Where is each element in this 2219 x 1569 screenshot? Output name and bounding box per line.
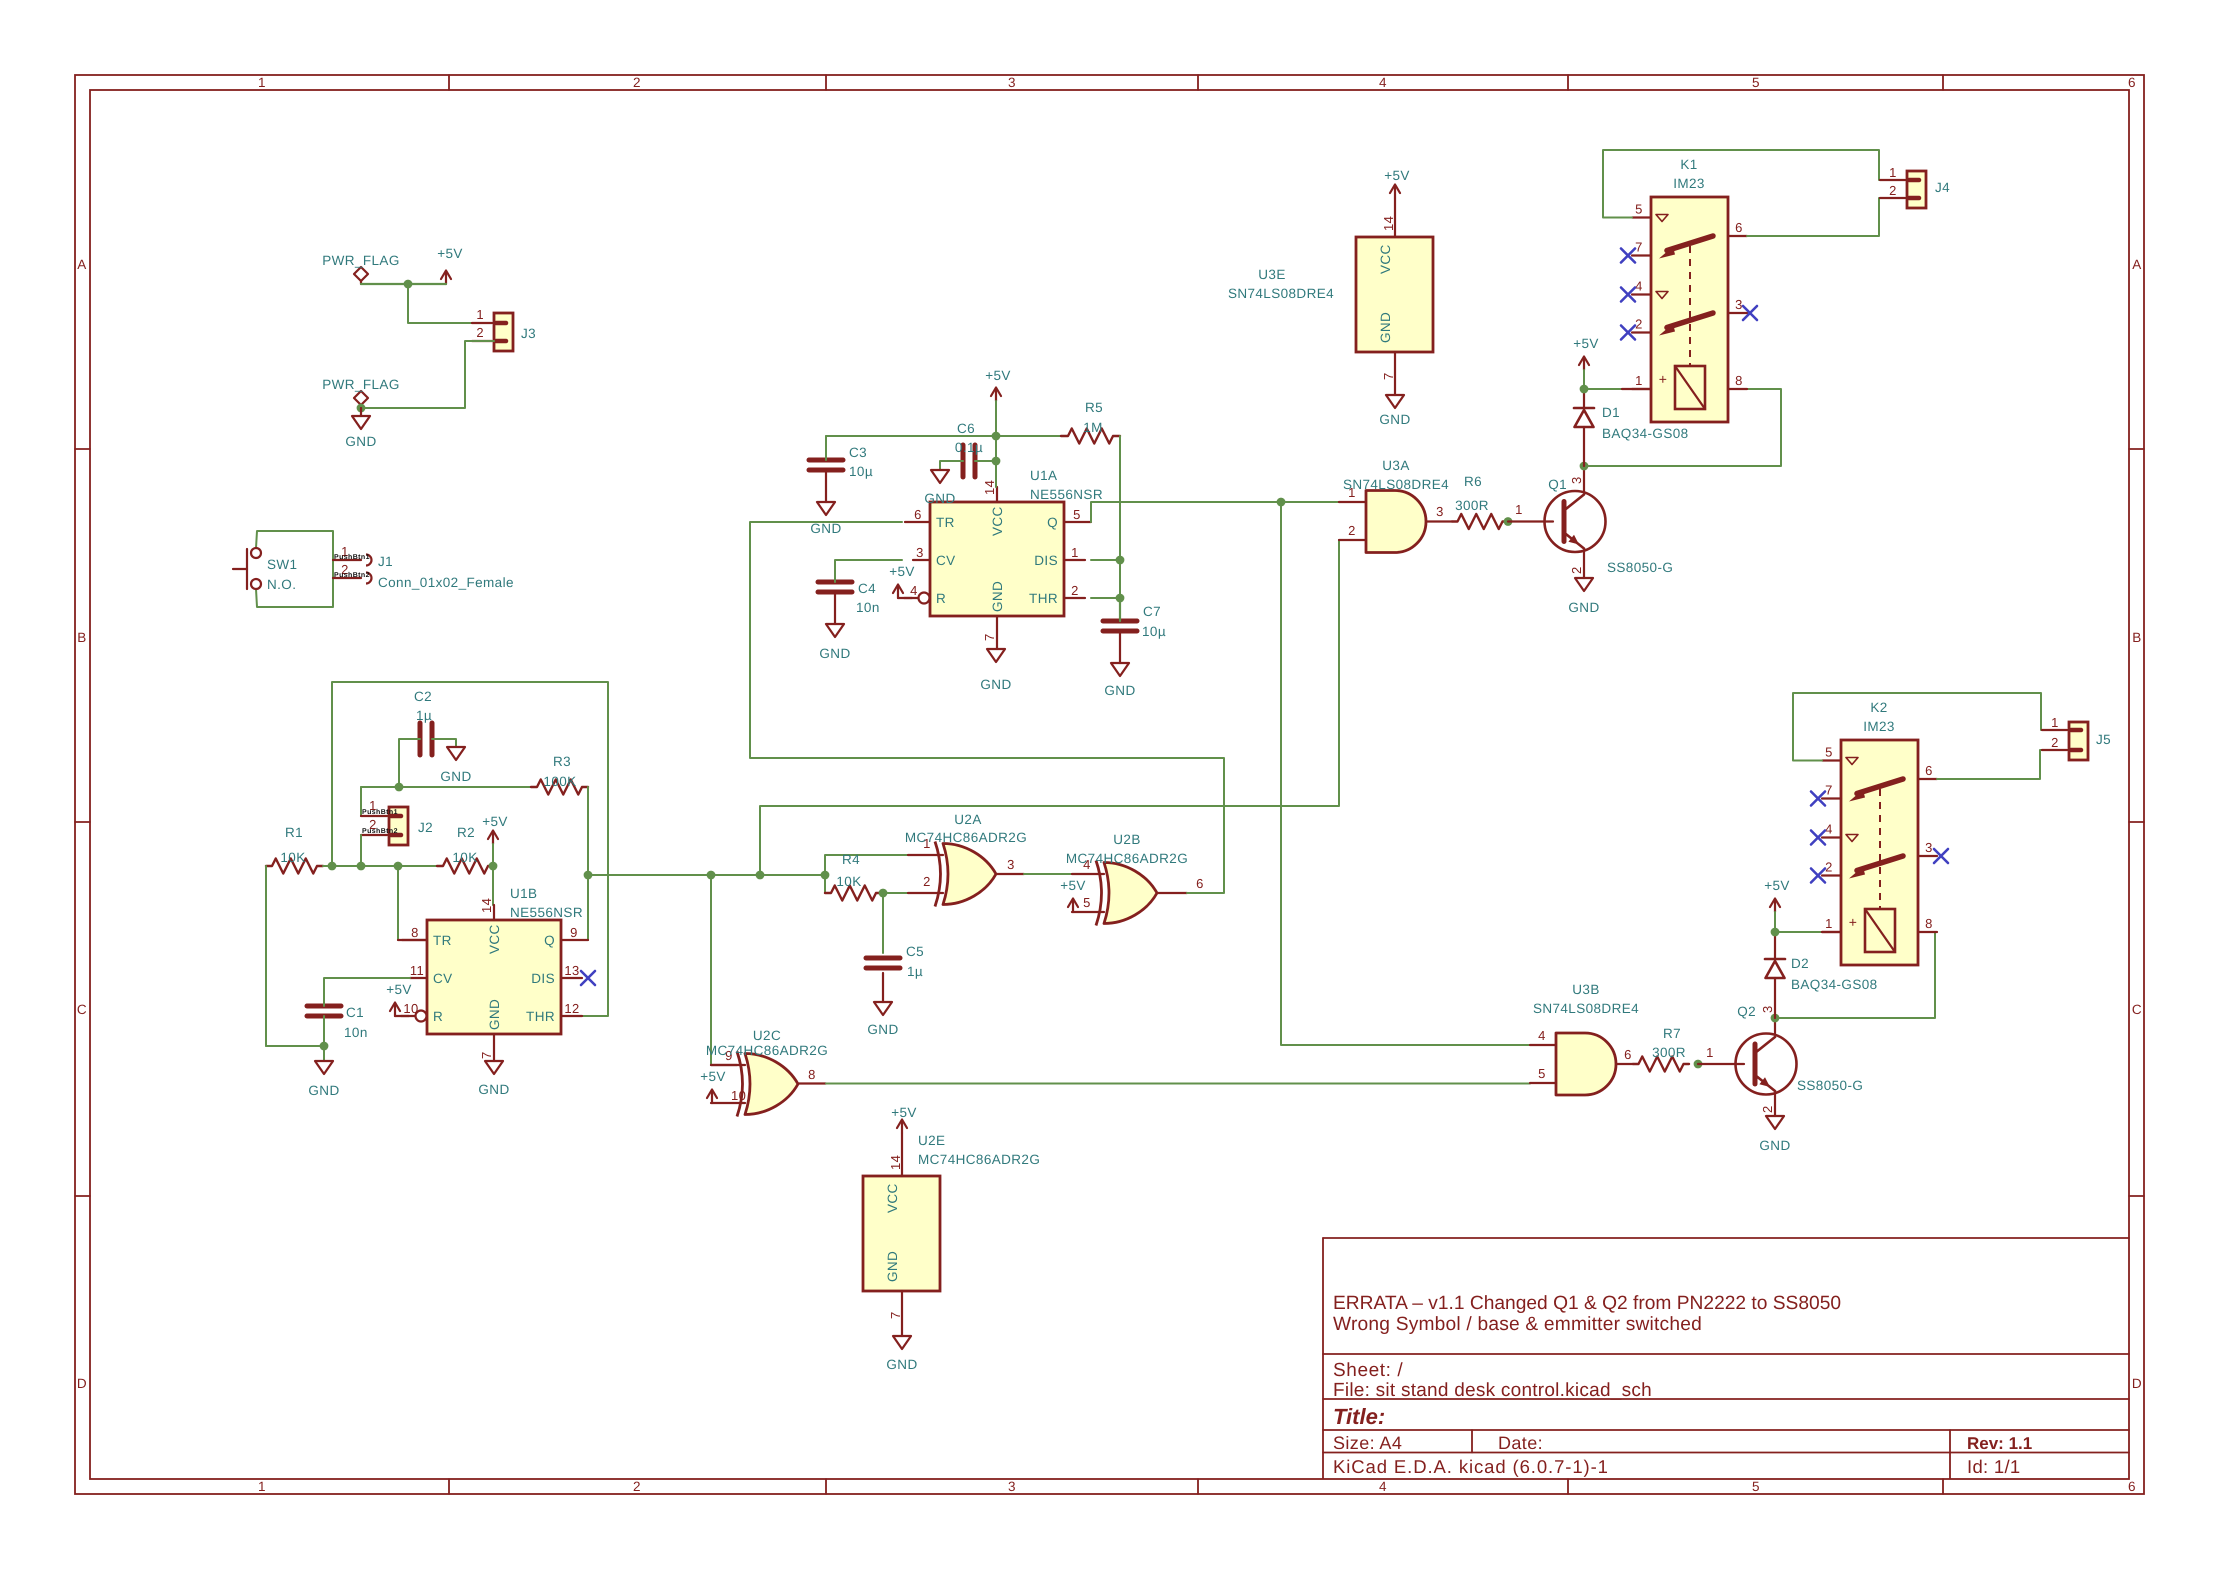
wire C6 right	[975, 460, 996, 462]
svg-text:U1A: U1A	[1030, 468, 1057, 483]
svg-text:SN74LS08DRE4: SN74LS08DRE4	[1533, 1001, 1639, 1016]
svg-text:8: 8	[1925, 916, 1933, 931]
svg-text:7: 7	[479, 1051, 494, 1059]
svg-text:GND: GND	[924, 491, 955, 506]
svg-text:ERRATA – v1.1 Changed Q1 & Q2: ERRATA – v1.1 Changed Q1 & Q2 from PN222…	[1333, 1293, 1841, 1314]
wire C6 left to GND	[940, 461, 963, 470]
diode D2 BAQ34-GS08	[1765, 958, 1785, 961]
svg-text:5: 5	[1752, 1479, 1760, 1494]
junction VCC/C6	[992, 457, 1001, 466]
junction R7/Q2 base	[1694, 1060, 1703, 1069]
svg-text:8: 8	[411, 925, 419, 940]
wire K1 pin 8 loop	[1584, 389, 1781, 466]
power symbol +5V (U2C pin 10)	[711, 1090, 713, 1103]
svg-text:PushBtn2: PushBtn2	[334, 571, 370, 579]
svg-text:GND: GND	[440, 769, 471, 784]
ground symbol (C1)	[315, 1061, 333, 1074]
wire K2 pin 6 to J5 pin 2	[1937, 750, 2069, 779]
svg-text:VCC: VCC	[487, 924, 502, 954]
wire CV U1A to C4	[835, 560, 902, 582]
wire D2 stubs	[1774, 932, 1776, 959]
junction +5V/D1/K1 pin 1	[1580, 385, 1589, 394]
svg-text:6: 6	[2128, 1479, 2136, 1494]
svg-text:7: 7	[982, 633, 997, 641]
junction row/R2/+5V	[489, 862, 498, 871]
svg-text:File: sit stand desk control.k: File: sit stand desk control.kicad_sch	[1333, 1380, 1652, 1401]
power symbol +5V (U1B VCC)	[492, 831, 494, 844]
svg-text:NE556NSR: NE556NSR	[510, 905, 583, 920]
svg-text:Wrong Symbol / base & emmitter: Wrong Symbol / base & emmitter switched	[1333, 1314, 1702, 1335]
ground symbol (U1B GND pin)	[485, 1061, 503, 1074]
junction GND/J3	[357, 404, 366, 413]
ground symbol (Q2)	[1766, 1116, 1784, 1129]
svg-text:Q2: Q2	[1737, 1004, 1756, 1019]
transistor Q2 SS8050-G	[1736, 1034, 1797, 1095]
ground symbol (U2E)	[893, 1336, 911, 1349]
wire R5 right down to DIS/THR	[1119, 436, 1121, 597]
svg-text:1: 1	[1071, 545, 1079, 560]
svg-text:6: 6	[1196, 876, 1204, 891]
IC U1B NE556NSR (timer unit B)	[427, 920, 561, 1034]
svg-text:SN74LS08DRE4: SN74LS08DRE4	[1343, 477, 1449, 492]
svg-text:CV: CV	[936, 553, 956, 568]
power symbol +5V (U1A VCC)	[995, 388, 997, 401]
junction row/TR	[394, 862, 403, 871]
wire U2C.8 to U3B.5	[826, 1083, 1530, 1085]
svg-text:IM23: IM23	[1863, 719, 1895, 734]
capacitor C3	[809, 458, 843, 463]
svg-text:4: 4	[1538, 1028, 1546, 1043]
wire C1 to GND junction	[323, 1016, 325, 1061]
wire D1 stubs	[1583, 389, 1585, 408]
wire VCC U1B	[492, 866, 494, 905]
no-connect X (K1.2)	[1621, 326, 1635, 340]
svg-text:12: 12	[564, 1001, 579, 1016]
svg-text:4: 4	[1379, 75, 1387, 90]
svg-text:GND: GND	[819, 646, 850, 661]
IC U3E SN74LS08DRE4 (power unit)	[1356, 237, 1433, 352]
wire DIS U1A	[1091, 559, 1120, 561]
relay K2 IM23	[1841, 740, 1918, 965]
wire Q U1A out	[1091, 502, 1366, 522]
junction THR/C7	[1116, 594, 1125, 603]
svg-text:TR: TR	[433, 933, 452, 948]
wire J3 pin 2 to GND	[361, 341, 494, 408]
svg-text:D2: D2	[1791, 956, 1809, 971]
svg-text:1: 1	[1706, 1045, 1714, 1060]
svg-text:2: 2	[1889, 183, 1897, 198]
svg-text:D: D	[77, 1376, 87, 1391]
svg-text:C5: C5	[906, 944, 924, 959]
svg-text:C6: C6	[957, 421, 975, 436]
wire U3A.1 to U3B.4	[1281, 502, 1556, 1045]
svg-text:2: 2	[633, 1479, 641, 1494]
svg-text:PushBtn1: PushBtn1	[362, 808, 398, 816]
svg-text:B: B	[2132, 630, 2141, 645]
svg-text:D: D	[2132, 1376, 2142, 1391]
svg-text:J4: J4	[1935, 180, 1950, 195]
svg-text:U2E: U2E	[918, 1133, 945, 1148]
svg-text:U3A: U3A	[1382, 458, 1409, 473]
power symbol +5V (at J3)	[445, 271, 447, 284]
capacitor C2	[418, 723, 423, 755]
svg-text:10: 10	[403, 1001, 418, 1016]
connector J5	[2069, 722, 2088, 760]
svg-text:R2: R2	[457, 825, 475, 840]
wire K2 pin 5 to J5 pin 1	[1793, 693, 2069, 761]
wire R3 right to row	[561, 787, 588, 940]
svg-text:C7: C7	[1143, 604, 1161, 619]
svg-text:1µ: 1µ	[907, 964, 923, 979]
svg-text:4: 4	[910, 583, 918, 598]
svg-text:N.O.: N.O.	[267, 577, 296, 592]
svg-text:VCC: VCC	[885, 1183, 900, 1213]
no-connect X (K2.7)	[1811, 792, 1825, 806]
svg-text:GND: GND	[1568, 600, 1599, 615]
svg-text:10: 10	[731, 1088, 746, 1103]
ground symbol (C4)	[826, 624, 844, 637]
svg-text:R: R	[433, 1009, 443, 1024]
svg-text:Title:: Title:	[1333, 1404, 1385, 1429]
power symbol +5V (K1 coil)	[1583, 357, 1585, 370]
svg-text:1: 1	[2051, 715, 2059, 730]
svg-text:Q: Q	[544, 933, 555, 948]
svg-text:A: A	[2132, 257, 2141, 272]
svg-text:U2A: U2A	[954, 812, 981, 827]
svg-text:Date:: Date:	[1498, 1433, 1543, 1453]
junction row/U3A-2	[756, 871, 765, 880]
svg-text:C2: C2	[414, 689, 432, 704]
switch SW1	[256, 531, 333, 607]
ground symbol (Q1)	[1575, 578, 1593, 591]
junction C2/R3	[395, 783, 404, 792]
resistor R3	[531, 780, 588, 795]
no-connect X (U1B DIS pin 13)	[581, 971, 595, 985]
wire K1 pin 6 to J4 pin 2	[1747, 198, 1907, 236]
wire C2 right to GND	[432, 739, 456, 747]
svg-text:J2: J2	[418, 820, 433, 835]
svg-text:Size: A4: Size: A4	[1333, 1433, 1402, 1453]
wire +5V to R pin U1A	[898, 597, 912, 599]
wire U2A.3 to U2B.4	[1024, 873, 1072, 875]
svg-text:C: C	[77, 1002, 87, 1017]
svg-text:5: 5	[1825, 745, 1833, 760]
svg-text:14: 14	[1381, 216, 1396, 231]
svg-text:GND: GND	[886, 1357, 917, 1372]
junction C1/GND	[320, 1042, 329, 1051]
junction Q2 collector/K2 pin 8	[1771, 1014, 1780, 1023]
svg-text:MC74HC86ADR2G: MC74HC86ADR2G	[918, 1152, 1040, 1167]
no-connect X (K1.7)	[1621, 249, 1635, 263]
svg-text:GND: GND	[980, 677, 1011, 692]
svg-text:+: +	[1659, 371, 1668, 387]
svg-text:9: 9	[570, 925, 578, 940]
wire +5V to PWR_FLAG	[361, 283, 446, 285]
ground symbol (U1A GND pin)	[987, 649, 1005, 662]
junction row/R4	[821, 871, 830, 880]
ground symbol (C6)	[931, 470, 949, 483]
svg-text:6: 6	[1925, 763, 1933, 778]
wire K2 pin 1	[1775, 931, 1822, 933]
svg-text:R1: R1	[285, 825, 303, 840]
connector J2	[389, 807, 408, 845]
svg-text:GND: GND	[487, 999, 502, 1030]
svg-text:10K: 10K	[836, 874, 861, 889]
power symbol +5V (K2 coil)	[1774, 899, 1776, 912]
svg-text:11: 11	[410, 963, 424, 978]
XOR gate U2B MC74HC86ADR2G	[1104, 863, 1157, 924]
diode D1 BAQ34-GS08	[1574, 407, 1594, 410]
svg-text:U1B: U1B	[510, 886, 537, 901]
svg-text:BAQ34-GS08: BAQ34-GS08	[1602, 426, 1689, 441]
title block	[1323, 1237, 2129, 1239]
resistor R2	[437, 859, 494, 874]
svg-text:3: 3	[916, 545, 924, 560]
no-connect X (K1.4)	[1621, 288, 1635, 302]
svg-text:1: 1	[476, 307, 484, 322]
svg-text:4: 4	[1825, 822, 1833, 837]
svg-text:1µ: 1µ	[416, 708, 432, 723]
ground symbol (C2)	[447, 747, 465, 760]
svg-text:PushBtn1: PushBtn1	[334, 553, 370, 561]
svg-text:A: A	[77, 257, 86, 272]
svg-text:GND: GND	[1378, 312, 1393, 343]
power symbol +5V (U2E)	[901, 1120, 903, 1133]
svg-text:SS8050-G: SS8050-G	[1797, 1078, 1863, 1093]
svg-text:TR: TR	[936, 515, 955, 530]
svg-text:U3B: U3B	[1572, 982, 1599, 997]
svg-text:SW1: SW1	[267, 557, 297, 572]
wire Q2 emitter	[1774, 1094, 1776, 1116]
svg-text:2: 2	[1635, 317, 1643, 332]
junction VCC/C3 line	[992, 432, 1001, 441]
IC U2E MC74HC86ADR2G (power unit)	[863, 1176, 940, 1291]
svg-text:1: 1	[1825, 916, 1833, 931]
svg-text:3: 3	[1008, 1479, 1016, 1494]
svg-text:1M: 1M	[1083, 420, 1103, 435]
svg-text:BAQ34-GS08: BAQ34-GS08	[1791, 977, 1878, 992]
svg-text:10K: 10K	[452, 850, 477, 865]
connector J4	[1907, 171, 1926, 208]
svg-text:Id: 1/1: Id: 1/1	[1967, 1456, 2021, 1477]
power flag PWR_FLAG (on +5V)	[360, 281, 362, 284]
svg-text:6: 6	[2128, 75, 2136, 90]
junction Q1 collector/K1 pin 8	[1580, 462, 1589, 471]
wire TR U1B net	[397, 866, 399, 940]
svg-text:R4: R4	[842, 852, 860, 867]
svg-text:5: 5	[1752, 75, 1760, 90]
svg-text:5: 5	[1538, 1066, 1546, 1081]
no-connect X (K1.3)	[1743, 306, 1757, 320]
XOR gate U2C MC74HC86ADR2G	[745, 1054, 798, 1115]
svg-text:6: 6	[914, 507, 922, 522]
svg-text:DIS: DIS	[531, 971, 555, 986]
svg-text:+5V: +5V	[1764, 878, 1790, 893]
svg-text:2: 2	[2051, 735, 2059, 750]
wire U2B out to TR link	[750, 522, 1224, 893]
wire CV to C1	[324, 978, 410, 1006]
svg-text:10n: 10n	[856, 600, 880, 615]
capacitor C7	[1103, 619, 1137, 624]
svg-text:7: 7	[1825, 783, 1833, 798]
svg-text:PushBtn2: PushBtn2	[362, 827, 398, 835]
power symbol +5V (U1B R pin)	[394, 1003, 396, 1016]
svg-text:R3: R3	[553, 754, 571, 769]
wire Q1 emitter	[1583, 551, 1585, 578]
svg-text:B: B	[77, 630, 86, 645]
svg-text:1: 1	[1515, 502, 1523, 517]
wire C4 to GND	[834, 592, 836, 624]
capacitor C4	[818, 580, 852, 585]
svg-text:SS8050-G: SS8050-G	[1607, 560, 1673, 575]
svg-text:J5: J5	[2096, 732, 2111, 747]
svg-text:+5V: +5V	[437, 246, 463, 261]
svg-text:K2: K2	[1870, 700, 1887, 715]
svg-text:8: 8	[1735, 373, 1743, 388]
AND gate U3A SN74LS08DRE4	[1366, 491, 1426, 553]
svg-text:5: 5	[1083, 895, 1091, 910]
svg-text:2: 2	[1569, 566, 1584, 574]
wire THR U1A	[1091, 597, 1120, 599]
svg-text:R7: R7	[1663, 1026, 1681, 1041]
svg-text:J3: J3	[521, 326, 536, 341]
svg-text:VCC: VCC	[990, 506, 1005, 536]
svg-text:SN74LS08DRE4: SN74LS08DRE4	[1228, 286, 1334, 301]
svg-text:GND: GND	[1759, 1138, 1790, 1153]
svg-text:1: 1	[1889, 165, 1897, 180]
wire U3A pin 2 link	[760, 540, 1366, 875]
wire C3 bottom to GND	[825, 470, 827, 502]
junction DIS/R5	[1116, 556, 1125, 565]
svg-text:14: 14	[888, 1155, 903, 1170]
wire K1 pin 5 to J4 pin 1	[1603, 150, 1907, 218]
svg-text:7: 7	[888, 1311, 903, 1319]
svg-text:THR: THR	[526, 1009, 555, 1024]
no-connect X (K2.2)	[1811, 869, 1825, 883]
capacitor C6	[961, 445, 966, 477]
svg-text:3: 3	[1925, 840, 1933, 855]
relay K1 IM23	[1651, 197, 1728, 422]
svg-text:3: 3	[1735, 297, 1743, 312]
wire +5V stub K2	[1774, 912, 1776, 932]
svg-text:MC74HC86ADR2G: MC74HC86ADR2G	[1066, 851, 1188, 866]
svg-text:6: 6	[1624, 1047, 1632, 1062]
svg-text:10n: 10n	[344, 1025, 368, 1040]
svg-text:0.1µ: 0.1µ	[955, 440, 983, 455]
AND gate U3B SN74LS08DRE4	[1556, 1033, 1616, 1095]
IC U1A NE556NSR (timer unit A)	[930, 502, 1064, 616]
power flag PWR_FLAG (on GND)	[360, 405, 362, 408]
svg-text:1: 1	[1635, 373, 1643, 388]
svg-text:5: 5	[1073, 507, 1081, 522]
resistor R4	[825, 886, 882, 901]
svg-text:C3: C3	[849, 445, 867, 460]
wire R1 left to C1	[266, 866, 316, 1046]
wire row R1-R2	[323, 865, 437, 867]
wire R7 to Q2 base	[1698, 1063, 1744, 1065]
svg-text:GND: GND	[345, 434, 376, 449]
transistor Q1 SS8050-G	[1545, 491, 1606, 552]
svg-text:+5V: +5V	[891, 1105, 917, 1120]
svg-text:+5V: +5V	[1384, 168, 1410, 183]
svg-text:+5V: +5V	[1573, 336, 1599, 351]
svg-text:+5V: +5V	[700, 1069, 726, 1084]
svg-text:MC74HC86ADR2G: MC74HC86ADR2G	[905, 830, 1027, 845]
ground symbol (J3)	[360, 408, 362, 416]
svg-text:MC74HC86ADR2G: MC74HC86ADR2G	[706, 1043, 828, 1058]
wire junction to J3 pin 1	[408, 284, 494, 323]
svg-text:D1: D1	[1602, 405, 1620, 420]
junction R6/Q1 base	[1504, 517, 1513, 526]
wire U2A pin 1 riser	[825, 855, 908, 893]
svg-text:CV: CV	[433, 971, 453, 986]
wire R3 left line	[360, 787, 362, 816]
wire C2 left to R3 line	[399, 739, 420, 787]
power symbol +5V (U3E)	[1394, 185, 1396, 198]
svg-text:Q: Q	[1047, 515, 1058, 530]
svg-text:10K: 10K	[280, 850, 305, 865]
svg-text:3: 3	[1007, 857, 1015, 872]
svg-text:Sheet: /: Sheet: /	[1333, 1360, 1403, 1381]
svg-text:Rev: 1.1: Rev: 1.1	[1967, 1434, 2032, 1453]
svg-text:2: 2	[1825, 860, 1833, 875]
wire +5V to R pin	[395, 1015, 409, 1017]
resistor R7	[1633, 1057, 1689, 1072]
svg-text:300R: 300R	[1455, 498, 1489, 513]
capacitor C1	[307, 1004, 341, 1009]
ground symbol (C7)	[1111, 663, 1129, 676]
no-connect X (K2.3)	[1934, 849, 1948, 863]
svg-text:2: 2	[1348, 523, 1356, 538]
resistor R5	[1061, 429, 1120, 444]
wire K1 pin 1	[1584, 388, 1622, 390]
svg-text:C: C	[2132, 1002, 2142, 1017]
svg-text:R: R	[936, 591, 946, 606]
svg-text:2: 2	[1071, 583, 1079, 598]
svg-text:3: 3	[1436, 504, 1444, 519]
svg-text:13: 13	[564, 963, 579, 978]
ground symbol (U3E)	[1386, 395, 1404, 408]
svg-text:8: 8	[808, 1067, 816, 1082]
wire U2C pin 9 drop	[710, 875, 712, 1065]
svg-text:3: 3	[1569, 476, 1584, 484]
wire THR-U1B net frame	[332, 682, 608, 1016]
svg-text:+5V: +5V	[889, 564, 915, 579]
wire J2 pin 2 down	[360, 835, 362, 866]
svg-text:300R: 300R	[1652, 1045, 1686, 1060]
wire Q1 collector	[1583, 466, 1585, 492]
svg-text:GND: GND	[1104, 683, 1135, 698]
svg-text:2: 2	[476, 325, 484, 340]
XOR gate U2A MC74HC86ADR2G	[943, 844, 996, 905]
power symbol +5V (U1A R pin)	[897, 585, 899, 598]
no-connect X (K2.4)	[1811, 831, 1825, 845]
svg-text:1: 1	[258, 1479, 266, 1494]
svg-text:GND: GND	[478, 1082, 509, 1097]
junction row/frame	[328, 862, 337, 871]
resistor R1	[266, 859, 323, 874]
svg-text:Q1: Q1	[1548, 477, 1567, 492]
svg-text:2: 2	[923, 874, 931, 889]
svg-text:K1: K1	[1680, 157, 1697, 172]
junction row/J2	[357, 862, 366, 871]
svg-text:+5V: +5V	[1060, 878, 1086, 893]
svg-text:NE556NSR: NE556NSR	[1030, 487, 1103, 502]
connector J1	[333, 559, 361, 561]
svg-text:GND: GND	[308, 1083, 339, 1098]
svg-text:1: 1	[258, 75, 266, 90]
junction R4/C5	[879, 889, 888, 898]
